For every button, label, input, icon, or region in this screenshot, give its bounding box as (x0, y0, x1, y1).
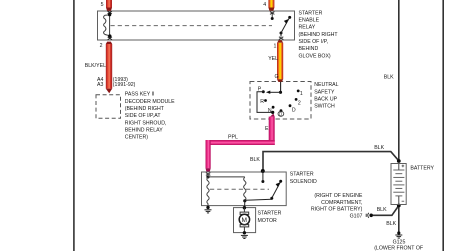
svg-text:(BEHIND RIGHT: (BEHIND RIGHT (125, 106, 165, 112)
svg-text:(RIGHT OF ENGINE: (RIGHT OF ENGINE (314, 193, 362, 199)
svg-text:YEL: YEL (268, 56, 278, 62)
svg-text:RIGHT OF BATTERY): RIGHT OF BATTERY) (311, 207, 363, 213)
svg-text:PPL: PPL (228, 134, 238, 140)
svg-text:COMPARTMENT,: COMPARTMENT, (321, 200, 362, 206)
svg-text:E: E (265, 126, 269, 132)
svg-text:(1991-92): (1991-92) (113, 82, 136, 88)
svg-text:BLK: BLK (250, 157, 260, 163)
svg-text:BEHIND RELAY: BEHIND RELAY (125, 127, 163, 133)
svg-text:SIDE OF I/P,: SIDE OF I/P, (299, 39, 328, 45)
svg-text:DECODER MODULE: DECODER MODULE (125, 99, 175, 105)
svg-text:RIGHT SHROUD,: RIGHT SHROUD, (125, 120, 167, 126)
svg-text:RELAY: RELAY (299, 25, 316, 31)
svg-text:2: 2 (298, 101, 301, 107)
svg-text:(BEHIND RIGHT: (BEHIND RIGHT (299, 32, 339, 38)
svg-text:STARTER: STARTER (299, 10, 323, 16)
svg-text:M: M (242, 217, 248, 224)
svg-text:A3: A3 (97, 82, 103, 88)
svg-text:N: N (268, 108, 272, 114)
svg-text:(LOWER FRONT OF: (LOWER FRONT OF (374, 245, 424, 251)
svg-text:G: G (275, 74, 279, 80)
svg-text:D: D (292, 107, 296, 113)
svg-text:G107: G107 (350, 213, 363, 219)
svg-text:BLK: BLK (377, 207, 387, 213)
svg-text:BEHIND: BEHIND (299, 46, 319, 52)
svg-text:MOTOR: MOTOR (258, 218, 277, 224)
svg-text:SWITCH: SWITCH (314, 104, 335, 110)
svg-text:2: 2 (100, 43, 103, 49)
svg-text:SAFETY: SAFETY (314, 89, 335, 95)
svg-text:BLK: BLK (384, 74, 394, 80)
svg-text:ENABLE: ENABLE (299, 17, 320, 23)
svg-text:BACK UP: BACK UP (314, 96, 337, 102)
svg-text:BLK/YEL: BLK/YEL (85, 63, 106, 69)
svg-text:BLK: BLK (386, 221, 396, 227)
svg-text:1: 1 (274, 44, 277, 50)
svg-text:STARTER: STARTER (258, 211, 282, 217)
svg-text:STARTER: STARTER (290, 172, 314, 178)
svg-text:1: 1 (300, 91, 303, 97)
svg-text:GLOVE BOX): GLOVE BOX) (299, 53, 331, 59)
svg-text:SIDE OF I/P,AT: SIDE OF I/P,AT (125, 113, 161, 119)
svg-text:R: R (260, 99, 264, 105)
svg-text:4: 4 (263, 2, 266, 8)
svg-text:5: 5 (101, 2, 104, 8)
svg-text:BATTERY: BATTERY (410, 166, 434, 172)
svg-text:P: P (258, 86, 262, 92)
svg-text:CENTER): CENTER) (125, 135, 148, 141)
svg-text:NEUTRAL: NEUTRAL (314, 82, 338, 88)
svg-text:BLK: BLK (374, 145, 384, 151)
svg-text:SOLENOID: SOLENOID (290, 179, 317, 185)
svg-text:PASS KEY II: PASS KEY II (125, 92, 155, 98)
